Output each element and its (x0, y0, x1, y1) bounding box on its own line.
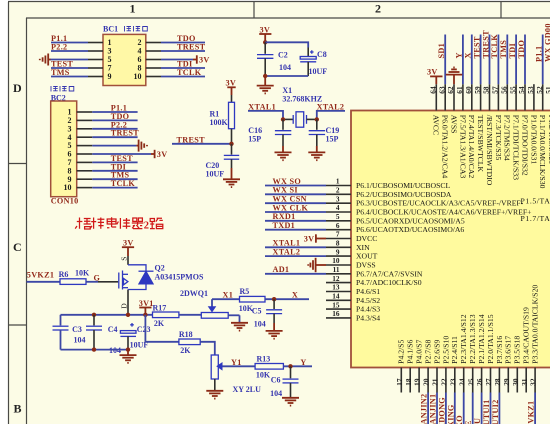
U1 pin 5 (P6.5) (326, 212, 465, 225)
wire bottom rail (61, 349, 129, 351)
U1 pin 15 (P4.4) (326, 300, 380, 313)
svg-text:P3.4/CAOUT/S19: P3.4/CAOUT/S19 (522, 307, 531, 364)
svg-text:24: 24 (457, 378, 466, 386)
wire net P1.1 to U1 pin 52 (542, 35, 544, 85)
svg-text:59: 59 (473, 86, 482, 94)
wire R18 to pot Y1 (200, 342, 215, 355)
wire 3V1 branch down to R18 (145, 315, 179, 342)
wire BC2 pin2 (92, 119, 137, 121)
svg-text:C: C (13, 240, 22, 254)
svg-text:P6.4/UCBOCLK/UCAOSTE/A4/CA6/VE: P6.4/UCBOCLK/UCAOSTE/A4/CA6/VEREF+/VREF+ (356, 208, 531, 217)
wire net X to U1 pin 60 (471, 35, 473, 85)
signal ground at U1 pin10 DVSS (308, 258, 326, 272)
wire TREST from BC1 pin4 (161, 50, 205, 52)
capacitor C5 (252, 299, 282, 329)
svg-text:TMS: TMS (51, 68, 70, 77)
wire TMS to BC1 pin9 (51, 76, 88, 78)
U1 pin 62 (AVSS) (446, 84, 458, 133)
svg-text:P7.4/TA1.4/A0/CA2: P7.4/TA1.4/A0/CA2 (467, 115, 476, 179)
ground below C23 (120, 350, 137, 363)
svg-text:2: 2 (336, 186, 340, 195)
svg-text:3V: 3V (260, 25, 271, 34)
wire net WX CLK to U1 pin 4 (265, 211, 326, 213)
svg-text:55: 55 (508, 86, 517, 94)
op-amp U1 body (351, 111, 550, 368)
svg-text:31: 31 (520, 378, 529, 386)
wire BC2 pin7 (92, 161, 137, 163)
U1 pin 11 (P6.7) (326, 265, 423, 278)
junction XTAL2/C19 (315, 117, 319, 121)
resistor R18 (179, 330, 200, 355)
U1 pin 17 (P4.2) (395, 340, 406, 393)
svg-text:61: 61 (455, 86, 464, 94)
wire net AD1 to U1 pin 11 (265, 273, 326, 275)
wire R17 to pot X1 (179, 314, 201, 316)
power 3V above R1 (226, 79, 237, 96)
svg-text:51: 51 (544, 86, 550, 94)
U1 pin 23 (P2.4) (448, 336, 459, 393)
junction C4 bottom (92, 347, 96, 351)
svg-text:P2.2/TA1.3/S13: P2.2/TA1.3/S13 (468, 314, 477, 364)
BC2 chinese title glyphs (51, 86, 74, 92)
svg-text:P3.6/S17: P3.6/S17 (504, 336, 513, 364)
svg-text:12: 12 (332, 274, 340, 283)
U1 pin 64 (AVCC) (429, 84, 441, 135)
svg-text:10K: 10K (256, 371, 271, 380)
svg-text:10UF: 10UF (309, 67, 328, 76)
U1 pin 12 (P4.7) (326, 274, 422, 287)
svg-text:3V: 3V (123, 238, 134, 247)
svg-text:1: 1 (336, 177, 340, 186)
svg-text:TEST/SBWTCLK: TEST/SBWTCLK (476, 115, 485, 173)
svg-text:AVCC: AVCC (432, 115, 441, 135)
svg-text:TDI: TDI (508, 43, 517, 58)
svg-text:DVSS: DVSS (356, 261, 376, 270)
svg-text:P4.2/S5: P4.2/S5 (397, 340, 406, 364)
BC1 title text (103, 25, 118, 34)
svg-text:WX GD00: WX GD00 (543, 23, 550, 62)
svg-text:5: 5 (336, 212, 340, 221)
svg-text:23: 23 (448, 378, 457, 386)
svg-text:TREST: TREST (177, 43, 206, 52)
U1 pin 7 (DVCC) (326, 230, 377, 243)
signal ground at BC2 pin5 (136, 140, 147, 152)
svg-text:P2.2: P2.2 (51, 43, 67, 52)
U1 pin 30 (P3.5) (511, 336, 522, 393)
power 3V above C2 (259, 25, 271, 42)
U1 pin 20 (P2.7) (422, 340, 433, 393)
svg-text:XY 2LU: XY 2LU (233, 385, 262, 394)
svg-text:P4.6/S1: P4.6/S1 (356, 287, 380, 296)
ground below C5 (266, 323, 283, 339)
svg-text:TCLK: TCLK (177, 68, 202, 77)
U1 pin 3 (P6.3) (326, 194, 524, 207)
pot Y1 wiper arrow (216, 362, 255, 371)
svg-text:21: 21 (431, 378, 440, 386)
svg-text:P3.3/TA0.0/TAICLK/S20: P3.3/TA0.0/TAICLK/S20 (531, 285, 540, 364)
ground at U1 pin62 AVSS (446, 67, 462, 84)
power 3V1 (139, 299, 154, 315)
svg-text:C2: C2 (278, 51, 288, 60)
wire net TMS to U1 pin 56 (506, 35, 508, 85)
svg-text:5VKZ1: 5VKZ1 (27, 271, 54, 280)
junction C4 top (92, 313, 96, 317)
power 3V at U1 pin64 AVCC (427, 68, 443, 85)
svg-text:TDO: TDO (517, 40, 526, 59)
wire net XDONG from U1 pin 22 (445, 393, 447, 424)
U1 pin 27 (P2.0) (484, 314, 495, 392)
wire net Y to U1 pin 61 (462, 35, 464, 85)
ground below pot Y1 (206, 391, 223, 399)
wire net XTAL2 to U1 pin 9 (265, 255, 326, 257)
U1 pin 55 (P7.1) (508, 84, 520, 180)
svg-text:BC1: BC1 (103, 25, 118, 34)
U1 pin 13 (P4.6) (326, 283, 380, 296)
U1 pin 26 (P2.1) (475, 314, 486, 392)
wire P2.2 to BC1 pin3 (51, 50, 88, 52)
capacitor C19 (309, 119, 340, 146)
svg-text:UTUI2: UTUI2 (491, 399, 500, 424)
wire net U from U1 pin 26 (481, 393, 483, 424)
svg-text:P7.5/TA1.3/A1/CA3: P7.5/TA1.3/A1/CA3 (458, 115, 467, 179)
wire net WX CSN to U1 pin 3 (265, 202, 326, 204)
svg-text:9: 9 (336, 247, 340, 256)
svg-text:17: 17 (395, 378, 404, 386)
svg-text:62: 62 (446, 86, 455, 94)
svg-text:R1: R1 (210, 109, 220, 118)
svg-text:P6.0/TA1.2/A2/CA4: P6.0/TA1.2/A2/CA4 (441, 115, 450, 179)
power 3V above Q2 (122, 238, 134, 256)
U1 pin 9 (XOUT) (326, 247, 378, 260)
svg-text:104: 104 (279, 63, 291, 72)
U1 pin 10 (DVSS) (326, 256, 376, 269)
capacitor C3 (53, 315, 86, 350)
svg-text:54: 54 (517, 86, 526, 94)
svg-text:32: 32 (529, 378, 538, 386)
svg-text:6: 6 (336, 221, 340, 230)
U1 pin 4 (P6.4) (326, 203, 531, 216)
svg-text:XO: XO (455, 415, 464, 424)
U1 pin 25 (P2.2) (466, 314, 477, 392)
svg-text:9: 9 (108, 72, 112, 81)
junction C2 bottom (263, 74, 267, 78)
ground below C2 (257, 76, 274, 93)
svg-text:P7.0/TDO/TDI/S32: P7.0/TDO/TDI/S32 (520, 115, 529, 176)
svg-text:13: 13 (332, 283, 340, 292)
wire net XO from U1 pin 24 (463, 393, 465, 424)
wire R5 to X (265, 298, 309, 300)
svg-text:104: 104 (270, 389, 282, 398)
svg-text:R6: R6 (59, 270, 69, 279)
wire R13 to Y (283, 365, 312, 367)
wire TEST to BC1 pin7 (51, 67, 88, 69)
signal ground at BC1 pin5 (40, 54, 51, 66)
svg-text:57: 57 (491, 86, 500, 94)
wire net RXD1 to U1 pin 5 (265, 220, 326, 222)
svg-text:P2.7/S8: P2.7/S8 (424, 340, 433, 364)
svg-text:WX CSN: WX CSN (273, 195, 307, 204)
svg-text:XTAL2: XTAL2 (273, 247, 301, 256)
svg-text:C3: C3 (72, 325, 82, 334)
svg-text:30: 30 (511, 378, 520, 386)
svg-text:P2.3/TA1.4/S12: P2.3/TA1.4/S12 (459, 314, 468, 364)
svg-text:P1.0/TA0.0/S31: P1.0/TA0.0/S31 (529, 115, 538, 165)
wire BC2 pin3 (92, 128, 137, 130)
svg-text:TMS: TMS (499, 40, 508, 59)
wire net SD1 to U1 pin 63 (444, 35, 446, 85)
svg-text:27: 27 (484, 378, 493, 386)
wire X1 node (212, 298, 240, 300)
svg-text:P3.7/S16: P3.7/S16 (495, 336, 504, 364)
svg-text:100K: 100K (210, 118, 229, 127)
capacitor C16 (248, 119, 291, 146)
wire net TCLK to U1 pin 57 (497, 35, 499, 85)
U1 pin 63 (P6.0) (437, 84, 449, 178)
U1 pin 18 (P4.1) (404, 340, 415, 393)
power 3V bar at BC2 pin6 (151, 150, 167, 159)
U1 pin 16 (P4.3) (326, 309, 380, 322)
svg-text:P2.5/S10: P2.5/S10 (441, 336, 450, 364)
U1 pin 61 (P7.5) (455, 84, 467, 178)
svg-text:RXD1: RXD1 (273, 212, 296, 221)
svg-text:TCLK: TCLK (111, 179, 136, 188)
U1 pin 22 (P2.5) (440, 336, 451, 393)
svg-text:A03415PMOS: A03415PMOS (155, 272, 204, 281)
junction XTAL1/C16 (281, 117, 285, 121)
wire R6 to Q2 gate (86, 281, 98, 283)
svg-text:P4.7/ADC10CLK/S0: P4.7/ADC10CLK/S0 (356, 278, 422, 287)
svg-text:P4.5/S2: P4.5/S2 (356, 296, 380, 305)
svg-text:TXD1: TXD1 (273, 221, 296, 230)
svg-text:104: 104 (254, 320, 266, 329)
svg-text:D: D (120, 303, 129, 309)
resistor R5 (239, 287, 265, 313)
potentiometer Y1 body (211, 355, 218, 391)
svg-text:7: 7 (336, 230, 340, 239)
ground below pot X1 right (231, 323, 248, 331)
ground below C16 (275, 146, 292, 160)
U1 pin 19 (P4.0) (413, 340, 424, 393)
svg-text:XTAL1: XTAL1 (273, 239, 301, 248)
svg-text:U: U (473, 418, 482, 424)
svg-text:SD1: SD1 (437, 43, 446, 58)
wire TREST (172, 143, 232, 145)
wire BC1 pin5 to ground (50, 59, 88, 61)
svg-text:AVSS: AVSS (449, 115, 458, 134)
svg-text:3V: 3V (304, 235, 315, 244)
svg-text:R13: R13 (257, 355, 271, 364)
svg-text:22: 22 (440, 378, 449, 386)
svg-text:P6.2/UCBOSIMO/UCBOSDA: P6.2/UCBOSIMO/UCBOSDA (356, 190, 452, 199)
svg-text:G: G (94, 273, 101, 282)
svg-text:58: 58 (482, 86, 491, 94)
capacitor C2 (257, 42, 291, 76)
svg-text:R17: R17 (153, 303, 167, 312)
svg-text:P4.0/S7: P4.0/S7 (415, 340, 424, 364)
ground below C19 (308, 146, 325, 160)
svg-text:WX SO: WX SO (273, 177, 302, 186)
svg-text:P2.4/S11: P2.4/S11 (450, 336, 459, 364)
svg-text:3: 3 (336, 194, 340, 203)
svg-text:TCLK: TCLK (490, 34, 499, 59)
svg-text:2: 2 (144, 221, 149, 232)
U1 pin 6 (P6.6) (326, 221, 464, 234)
svg-text:E: E (464, 420, 473, 424)
svg-text:P4.3/S4: P4.3/S4 (356, 313, 380, 322)
svg-text:C6: C6 (271, 376, 281, 385)
svg-text:P2.0/TA1.1/S15: P2.0/TA1.1/S15 (486, 314, 495, 364)
svg-text:26: 26 (475, 378, 484, 386)
wire BC2 pin4 (92, 136, 137, 138)
resistor R17 (153, 303, 179, 328)
svg-text:UTUI1: UTUI1 (482, 399, 491, 424)
svg-text:10UF: 10UF (206, 170, 225, 179)
svg-text:R5: R5 (240, 287, 250, 296)
svg-text:P6.1/UCBOSOMI/UCBOSCL: P6.1/UCBOSOMI/UCBOSCL (356, 181, 450, 190)
svg-text:15P: 15P (248, 135, 261, 144)
U1 pin 31 (P3.4) (520, 307, 531, 392)
power 3V bar at BC1 pin6 (193, 55, 210, 64)
svg-text:P2.1/TA1.2/S14: P2.1/TA1.2/S14 (477, 314, 486, 364)
ground below C6 (282, 398, 299, 406)
wire net 5VKZ1 from U1 pin 32 (534, 393, 536, 424)
U1 pin 51 (P1.2) (544, 84, 550, 164)
U1 pin 52 (P1.1) (535, 84, 547, 188)
svg-text:C5: C5 (252, 307, 262, 316)
svg-text:P4.4/S3: P4.4/S3 (356, 305, 380, 314)
svg-text:X: X (464, 52, 473, 58)
svg-text:C23: C23 (137, 325, 151, 334)
svg-text:10: 10 (134, 72, 142, 81)
svg-text:TREST: TREST (111, 129, 140, 138)
svg-text:2K: 2K (180, 346, 191, 355)
wire net UTUI1 from U1 pin 27 (490, 393, 492, 424)
U1 pin 53 (P1.0) (526, 84, 538, 164)
svg-text:D: D (13, 81, 22, 95)
wire net TDI to U1 pin 55 (515, 35, 517, 85)
capacitor C8 polarized (300, 50, 327, 76)
junction D/rail (126, 313, 130, 317)
BC2 title text (51, 94, 66, 103)
svg-text:P4.1/S6: P4.1/S6 (406, 340, 415, 364)
wire net XING from U1 pin 23 (454, 393, 456, 424)
svg-text:X: X (292, 291, 298, 300)
header BC2 body (51, 101, 77, 197)
svg-text:P1.7/TA1.0/CAOUT/S28: P1.7/TA1.0/CAOUT/S28 (521, 214, 550, 223)
svg-text:15: 15 (332, 300, 340, 309)
U1 pin 1 (P6.1) (326, 177, 450, 190)
svg-text:TEST: TEST (472, 36, 481, 58)
U1 pin 21 (P2.6) (431, 340, 442, 393)
svg-text:WX SI: WX SI (273, 186, 298, 195)
svg-text:WX CLK: WX CLK (273, 203, 309, 212)
svg-text:C8: C8 (317, 50, 327, 59)
power 3V at U1 pin7 DVCC (304, 234, 326, 243)
svg-text:ANJIN1: ANJIN1 (429, 394, 438, 424)
svg-text:19: 19 (413, 378, 422, 386)
svg-text:64: 64 (429, 86, 438, 94)
wire BC2 pin10 (92, 187, 137, 189)
BC2 pin stubs (77, 112, 93, 188)
ground below C20 (223, 168, 240, 187)
resistor R6 (59, 269, 90, 285)
svg-text:P1.1/TA0.0/MCLK/S30: P1.1/TA0.0/MCLK/S30 (538, 115, 547, 189)
wire net TEST to U1 pin 59 (480, 35, 482, 85)
svg-text:P2.6/S9: P2.6/S9 (432, 340, 441, 364)
svg-text:XIN: XIN (356, 243, 370, 252)
svg-text:R18: R18 (179, 330, 193, 339)
svg-text:AD1: AD1 (273, 265, 290, 274)
svg-text:P6.7/A7/CA7/SVSIN: P6.7/A7/CA7/SVSIN (356, 269, 423, 278)
wire net UTUI2 from U1 pin 28 (498, 393, 500, 424)
wire 5VKZ1 to R6 (27, 281, 61, 283)
svg-text:P6.6/UCAOTXD/UCAOSIMO/A6: P6.6/UCAOTXD/UCAOSIMO/A6 (356, 225, 464, 234)
wire TCLK from BC1 pin10 (161, 76, 205, 78)
svg-text:Y: Y (300, 358, 306, 367)
capacitor C4 (86, 315, 121, 355)
svg-text:P6.3/UCBOSTE/UCAOCLK/A3/CA5/VR: P6.3/UCBOSTE/UCAOCLK/A3/CA5/VREF-/VREF- (356, 199, 524, 208)
wire net TXD1 to U1 pin 6 (265, 229, 326, 231)
wire net XTAL1 to U1 pin 8 (265, 246, 326, 248)
svg-text:28: 28 (493, 378, 502, 386)
U1 pin 54 (P7.0) (517, 84, 529, 176)
wire net E from U1 pin 25 (472, 393, 474, 424)
chinese title joystick potentiometer 2-way (75, 217, 143, 229)
capacitor C23 polarized (120, 323, 150, 350)
U1 pin 8 (XIN) (326, 239, 370, 252)
svg-text:ANJIN2: ANJIN2 (420, 394, 429, 424)
crystal X1 body (283, 112, 317, 127)
BC1 left pin stubs (88, 43, 103, 77)
svg-text:18: 18 (404, 378, 413, 386)
wire C2 top to C8 top (265, 42, 308, 47)
U1 pin 58 (/RST/NMI/SBWTDIO) (482, 84, 494, 186)
svg-text:P1.5/TA0.4/SMCLK/S26: P1.5/TA0.4/SMCLK/S26 (521, 197, 550, 206)
svg-text:25: 25 (466, 378, 475, 386)
U1 pin 57 (P7.3) (491, 84, 503, 160)
svg-text:S: S (120, 257, 129, 261)
wire net TREST to U1 pin 58 (489, 35, 491, 85)
svg-text:3V: 3V (157, 150, 168, 159)
wire BC2 pin6 to 3V (92, 153, 151, 155)
svg-text:C4: C4 (108, 325, 118, 334)
potentiometer X1 body (201, 313, 239, 323)
svg-text:104: 104 (74, 336, 86, 345)
svg-text:4: 4 (336, 203, 340, 212)
wire net TDO to U1 pin 54 (524, 35, 526, 85)
junction R1/TREST/C20 (229, 142, 233, 146)
wire net ANJIN1 from U1 pin 21 (436, 393, 438, 424)
U1 pin 2 (P6.2) (326, 186, 452, 199)
svg-text:56: 56 (500, 86, 509, 94)
svg-text:15P: 15P (326, 135, 339, 144)
svg-text:5VKZ1: 5VKZ1 (527, 401, 536, 424)
svg-text:B: B (14, 402, 22, 416)
svg-text:Y: Y (455, 52, 464, 58)
transistor Q2 A03415PMOS (98, 256, 204, 315)
svg-text:P7.2/TMS/S34: P7.2/TMS/S34 (503, 115, 512, 161)
svg-text:P7.1/TDI/TCLK/S33: P7.1/TDI/TCLK/S33 (512, 115, 521, 180)
wire BC2 pin9 (92, 178, 137, 180)
wire P1.1 to BC1 pin1 (51, 42, 88, 44)
svg-text:2DWQ1: 2DWQ1 (180, 289, 208, 298)
svg-text:P1.1: P1.1 (535, 46, 544, 62)
svg-text:1: 1 (130, 2, 136, 16)
wire from BC1 pin6 to 3V (161, 59, 193, 61)
svg-text:29: 29 (502, 378, 511, 386)
wire BC2 pin5 to ground (92, 145, 136, 147)
junction Y/C6 (288, 364, 292, 368)
